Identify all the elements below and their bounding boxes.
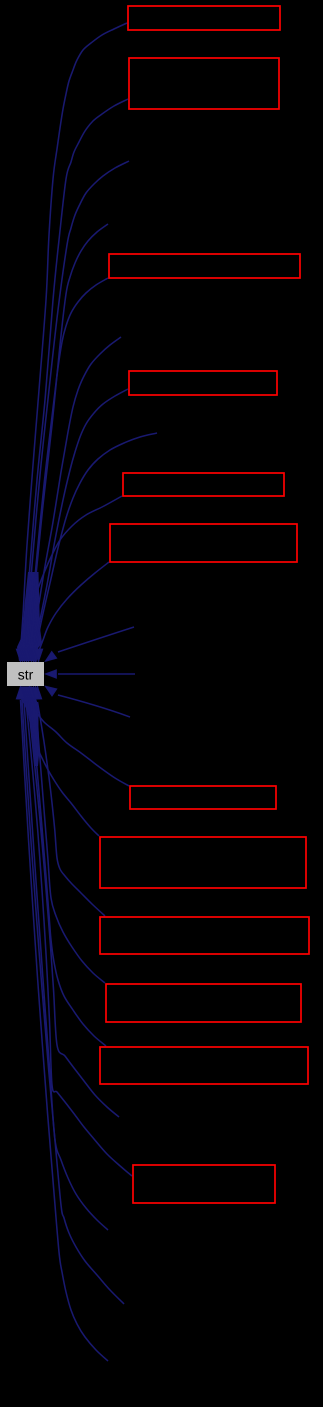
edge hidden caller n2 to str bbox=[22, 224, 108, 662]
caller node box8 (label hidden black-on-black) bbox=[100, 837, 306, 888]
node str (current function, grey) bbox=[7, 662, 44, 686]
edge bundle mass below str (merged splines) bbox=[17, 687, 40, 766]
edge caller7 (box7) to str bbox=[29, 686, 129, 786]
caller node box3 (label hidden black-on-black) bbox=[109, 254, 300, 278]
edge hidden caller n11 to str bbox=[16, 686, 108, 1361]
edge caller11 (box11) to str bbox=[27, 686, 106, 1046]
edge caller1 (box1) to str bbox=[16, 23, 127, 662]
caller node box6 (label hidden black-on-black) bbox=[110, 524, 297, 562]
edge bundle mass above str (merged splines) bbox=[17, 572, 42, 661]
caller node box12 (label hidden black-on-black) bbox=[133, 1165, 275, 1203]
edge hidden caller n6 to str bbox=[45, 670, 135, 679]
edge caller12 (box12) to str bbox=[22, 686, 132, 1176]
caller node box5 (label hidden black-on-black) bbox=[123, 473, 284, 496]
caller node box7 (label hidden black-on-black) bbox=[130, 786, 276, 809]
edge hidden caller n7 to str bbox=[45, 686, 130, 717]
caller node box9 (label hidden black-on-black) bbox=[100, 917, 309, 954]
caller node box2 (label hidden black-on-black) bbox=[129, 58, 279, 109]
edge hidden caller n8 to str bbox=[24, 686, 119, 1117]
edge hidden caller n10 to str bbox=[18, 686, 124, 1304]
edge hidden caller n4 to str bbox=[31, 433, 157, 662]
edge caller2 (box2) to str bbox=[18, 99, 128, 662]
edge hidden caller n5 to str bbox=[45, 627, 134, 662]
edge hidden caller n9 to str bbox=[20, 686, 108, 1230]
edge caller3 (box3) to str bbox=[24, 278, 108, 662]
edge caller5 (box5) to str bbox=[32, 496, 122, 662]
edge caller9 (box9) to str bbox=[33, 686, 105, 916]
edge hidden caller n1 to str bbox=[20, 161, 129, 662]
caller node box4 (label hidden black-on-black) bbox=[129, 371, 277, 395]
edge caller4 (box4) to str bbox=[29, 389, 128, 662]
caller node box1 (label hidden black-on-black) bbox=[128, 6, 280, 30]
caller node box11 (label hidden black-on-black) bbox=[100, 1047, 308, 1084]
edge hidden caller n3 to str bbox=[27, 337, 121, 662]
edge caller10 (box10) to str bbox=[31, 686, 105, 983]
edge caller6 (box6) to str bbox=[34, 562, 109, 662]
edge caller8 (box8) to str bbox=[25, 686, 99, 836]
caller node box10 (label hidden black-on-black) bbox=[106, 984, 301, 1022]
